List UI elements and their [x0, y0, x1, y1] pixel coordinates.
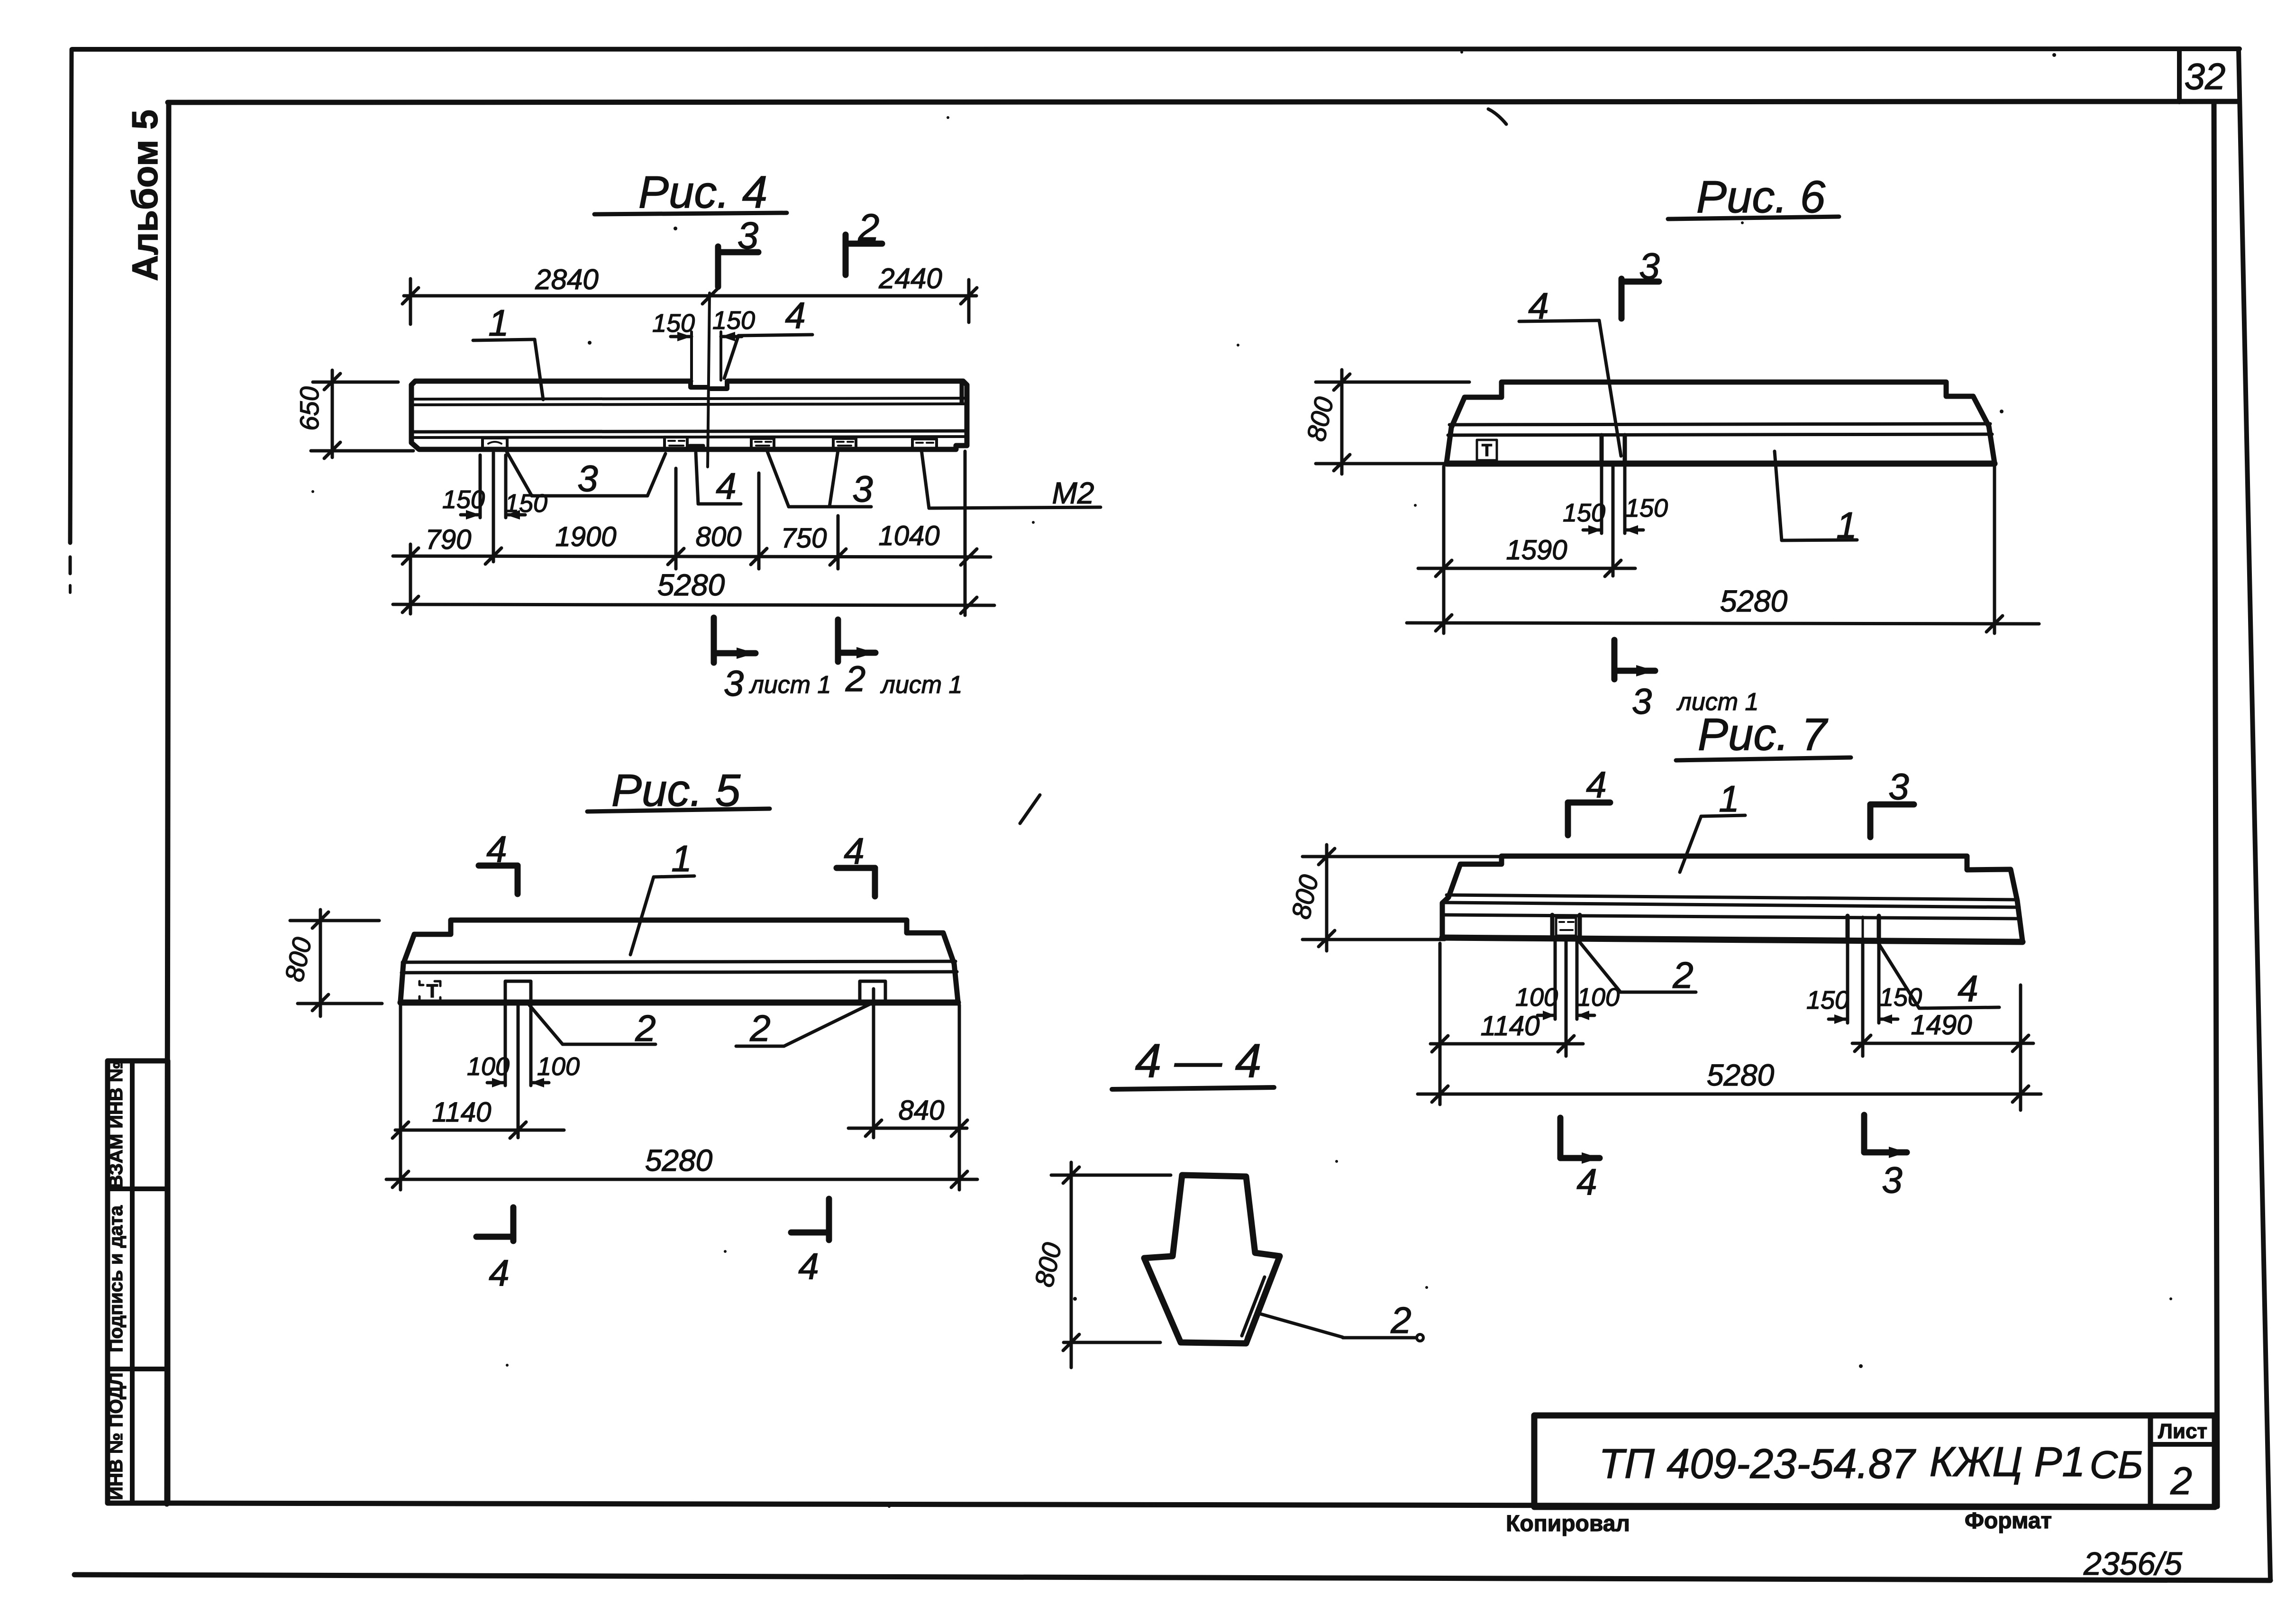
- svg-text:3: 3: [1639, 245, 1659, 287]
- fig6 beam ledge double line: [1449, 424, 1990, 425]
- svg-text:840: 840: [899, 1095, 945, 1126]
- fig4 extension lines to dim rows: [409, 544, 412, 614]
- fig7 top section mark 4: [1568, 800, 1610, 806]
- fig4 lower 150+150 dimension at plate 1: [479, 455, 482, 518]
- inner frame left: [167, 102, 169, 1504]
- svg-text:М2: М2: [1052, 476, 1094, 510]
- fig6 lifting loop mark T: [1477, 440, 1497, 460]
- svg-text:150: 150: [1563, 499, 1605, 527]
- fig5 5280 dimension: [386, 1178, 977, 1181]
- left stamp column table: [108, 1061, 168, 1503]
- svg-text:5280: 5280: [657, 568, 725, 602]
- svg-text:Рис. 4: Рис. 4: [638, 167, 767, 218]
- svg-text:4: 4: [1958, 967, 1978, 1009]
- fig5 bottom section mark 4 left: [510, 1207, 517, 1241]
- svg-text:100: 100: [537, 1052, 580, 1081]
- fig6 beam item 1 outline: [1447, 382, 1994, 463]
- fig4 top section mark 2: [843, 235, 849, 275]
- svg-text:3: 3: [1888, 766, 1909, 807]
- svg-text:лист 1: лист 1: [749, 671, 831, 699]
- svg-text:409-23-54.87: 409-23-54.87: [1667, 1440, 1916, 1487]
- svg-text:4: 4: [1576, 1161, 1597, 1203]
- fig5 800 height dimension: [319, 910, 322, 1016]
- svg-text:4: 4: [489, 1252, 509, 1294]
- fig4 embedded plate 2: [665, 437, 687, 448]
- fig4 dimension row 790/1900/800/750/1040: [393, 556, 991, 557]
- svg-text:Рис. 7: Рис. 7: [1698, 709, 1829, 760]
- svg-text:2: 2: [858, 206, 880, 248]
- fig4 embedded plate 3: [751, 438, 774, 449]
- svg-text:2356/5: 2356/5: [2083, 1546, 2182, 1582]
- fig5 bottom section mark 4 right: [826, 1199, 832, 1240]
- fig7 left tab with anchor plate item 2: [1550, 915, 1555, 938]
- fig4 beam ledge double line: [411, 431, 967, 432]
- svg-text:800: 800: [696, 521, 742, 552]
- inner frame right: [2214, 101, 2217, 1506]
- fig5 beam ledge double line: [402, 961, 956, 962]
- svg-text:2: 2: [845, 659, 865, 699]
- svg-text:1040: 1040: [878, 520, 939, 551]
- svg-text:ИНВ № ПОДЛ: ИНВ № ПОДЛ: [106, 1372, 127, 1500]
- svg-text:150: 150: [652, 309, 695, 338]
- fig7 beam bottom edge: [1442, 938, 2022, 942]
- svg-text:4: 4: [716, 465, 736, 507]
- fig4 bottom section mark 2 sheet1: [835, 620, 841, 662]
- title block list divider: [2148, 1415, 2153, 1507]
- svg-text:Рис. 6: Рис. 6: [1696, 172, 1826, 222]
- fig6 top section mark 3: [1619, 279, 1625, 319]
- fig4 embedded plate 1: [483, 438, 507, 449]
- fig4 beam right end inner line: [960, 381, 964, 403]
- fig5 title underline: [587, 809, 770, 812]
- fig5 840 dimension: [848, 1127, 967, 1130]
- svg-text:2: 2: [2170, 1460, 2192, 1503]
- svg-text:4: 4: [1586, 764, 1606, 805]
- svg-text:1490: 1490: [1911, 1010, 1972, 1040]
- fig4 beam top recess: [691, 381, 727, 389]
- fig5 lifting loop mark T: [419, 981, 440, 1001]
- fig7 bottom section mark 3: [1861, 1115, 1867, 1152]
- svg-text:1: 1: [671, 838, 692, 879]
- svg-text:5280: 5280: [1707, 1058, 1775, 1092]
- fig4 upper 150+150 dimension: [690, 332, 693, 379]
- svg-text:32: 32: [2185, 55, 2226, 97]
- svg-text:150: 150: [1806, 986, 1849, 1014]
- fig4 section trace line through beam: [708, 293, 710, 467]
- fig7 top section mark 3: [1870, 802, 1914, 808]
- fig4 beam item 1 outline: [411, 381, 967, 449]
- svg-text:3: 3: [738, 214, 759, 256]
- svg-text:750: 750: [781, 523, 827, 554]
- svg-text:5280: 5280: [645, 1143, 713, 1177]
- svg-text:лист 1: лист 1: [880, 671, 963, 699]
- svg-text:2: 2: [1672, 954, 1693, 996]
- svg-text:1: 1: [488, 302, 509, 344]
- svg-text:Формат: Формат: [1965, 1508, 2052, 1533]
- scan speckles: [674, 227, 677, 230]
- fig6 bottom section mark 3 sheet1: [1612, 640, 1618, 679]
- svg-text:3: 3: [577, 457, 598, 499]
- fig7 5280 dimension: [1418, 1093, 2041, 1096]
- fig6 joint gap lines: [1600, 435, 1604, 464]
- svg-text:4: 4: [798, 1245, 819, 1287]
- fig5 1140 dimension: [395, 1129, 564, 1132]
- fig6 beam bottom edge: [1447, 461, 1994, 467]
- stray pen slash middle: [1020, 795, 1040, 823]
- fig5 anchor plate left item 2: [505, 981, 531, 1003]
- fig4 bottom flat plate item 4: [690, 446, 724, 449]
- svg-text:Альбом 5: Альбом 5: [125, 109, 165, 281]
- svg-text:Подпись и дата: Подпись и дата: [106, 1205, 127, 1352]
- svg-text:650: 650: [294, 386, 324, 430]
- svg-text:150: 150: [712, 306, 755, 335]
- svg-text:ТП: ТП: [1599, 1440, 1655, 1487]
- outer border right (slight scan skew): [2239, 49, 2270, 1579]
- svg-text:100: 100: [1577, 983, 1620, 1012]
- section 4-4 title underline: [1112, 1087, 1274, 1089]
- svg-text:Копировал: Копировал: [1506, 1511, 1630, 1536]
- title block outline: [1534, 1415, 2215, 1507]
- svg-text:Т: Т: [427, 981, 438, 1002]
- fig4 embedded plate 5: [912, 439, 937, 449]
- svg-text:2: 2: [1390, 1299, 1411, 1341]
- svg-text:150: 150: [505, 489, 547, 518]
- fig4 top section mark 3: [715, 246, 721, 287]
- svg-text:100: 100: [1515, 983, 1558, 1012]
- svg-text:ВЗАМ ИНВ №: ВЗАМ ИНВ №: [106, 1061, 127, 1189]
- svg-text:790: 790: [426, 524, 472, 555]
- svg-text:150: 150: [442, 485, 485, 514]
- svg-text:СБ: СБ: [2090, 1443, 2143, 1487]
- section 4-4 plate strip item 2: [1242, 1277, 1269, 1338]
- fig7 title underline: [1676, 757, 1851, 760]
- fig4 embedded plate 4: [833, 438, 856, 449]
- fig7 bottom section mark 4: [1557, 1118, 1564, 1158]
- outer border top: [72, 49, 2240, 49]
- fig5 beam item 1 outline: [401, 920, 958, 1001]
- sheet number box divider: [2177, 49, 2182, 102]
- fig5 top section mark 4 left: [479, 863, 518, 869]
- svg-text:1590: 1590: [1506, 535, 1567, 566]
- fig6 5280 dimension: [1407, 623, 2039, 624]
- svg-text:Лист: Лист: [2158, 1420, 2207, 1443]
- inner frame top: [168, 101, 2239, 102]
- svg-text:4 — 4: 4 — 4: [1135, 1034, 1262, 1087]
- svg-text:100: 100: [467, 1052, 510, 1081]
- fig7 1140 dimension: [1430, 1042, 1583, 1046]
- svg-text:2440: 2440: [878, 263, 942, 294]
- fig4 bottom section mark 3 sheet1: [711, 618, 717, 663]
- svg-text:4: 4: [844, 830, 864, 872]
- svg-text:3: 3: [724, 664, 744, 704]
- svg-text:1140: 1140: [1481, 1011, 1540, 1041]
- fig4 top dimension line 2840/2440: [404, 294, 976, 298]
- fig7 beam ledge double line: [1447, 895, 2016, 900]
- fig5 anchor plate right item 2: [860, 981, 885, 1001]
- svg-text:2: 2: [749, 1007, 770, 1049]
- svg-text:4: 4: [486, 828, 507, 870]
- svg-text:150: 150: [1625, 494, 1668, 522]
- svg-text:3: 3: [852, 468, 873, 510]
- fig7 800 height dimension: [1325, 845, 1329, 951]
- fig7 100+100 dimension at left tab: [1554, 941, 1557, 1019]
- fig4 title underline: [594, 213, 787, 214]
- outer border bottom: [74, 1575, 2270, 1580]
- fig5 100+100 dimension at left anchor: [504, 1005, 507, 1086]
- fig7 beam lower band line: [1442, 915, 2021, 919]
- fig6 1590 dimension: [1418, 567, 1635, 570]
- inner frame bottom: [167, 1503, 2217, 1506]
- fig4 beam upper double line: [411, 398, 967, 399]
- svg-text:1: 1: [1719, 778, 1739, 820]
- svg-text:1140: 1140: [432, 1097, 492, 1128]
- fig5 top section mark 4 right: [837, 865, 875, 871]
- fig6 800 height dimension: [1340, 370, 1344, 474]
- svg-text:1900: 1900: [555, 521, 616, 552]
- fig4 650 height dimension: [331, 370, 334, 457]
- fig5 beam bottom edge: [401, 1000, 958, 1006]
- svg-text:3: 3: [1632, 682, 1652, 722]
- fig7 right tab item 4: [1846, 916, 1850, 940]
- svg-text:5280: 5280: [1720, 584, 1788, 618]
- svg-text:2840: 2840: [535, 264, 598, 295]
- fig4 dimension row 5280: [393, 604, 994, 605]
- svg-text:3: 3: [1882, 1159, 1902, 1201]
- section 4-4 cross-section outline: [1144, 1175, 1280, 1343]
- section 4-4 800 height dimension: [1070, 1162, 1073, 1368]
- svg-text:КЖЦ Р1: КЖЦ Р1: [1930, 1438, 2086, 1485]
- svg-text:Т: Т: [1482, 440, 1492, 460]
- fig7 1490 dimension: [1852, 1042, 2033, 1045]
- svg-text:4: 4: [785, 294, 805, 336]
- fig6 title underline: [1668, 217, 1839, 219]
- stray pen mark top center: [1488, 109, 1506, 124]
- fig7 beam item 1 outline: [1442, 856, 2022, 941]
- outer border left (fades out): [70, 49, 72, 543]
- svg-text:150: 150: [1879, 983, 1922, 1012]
- fig7 150+150 dimension at right tab: [1846, 942, 1849, 1023]
- fig6 150+150 dimension at joint: [1600, 465, 1603, 533]
